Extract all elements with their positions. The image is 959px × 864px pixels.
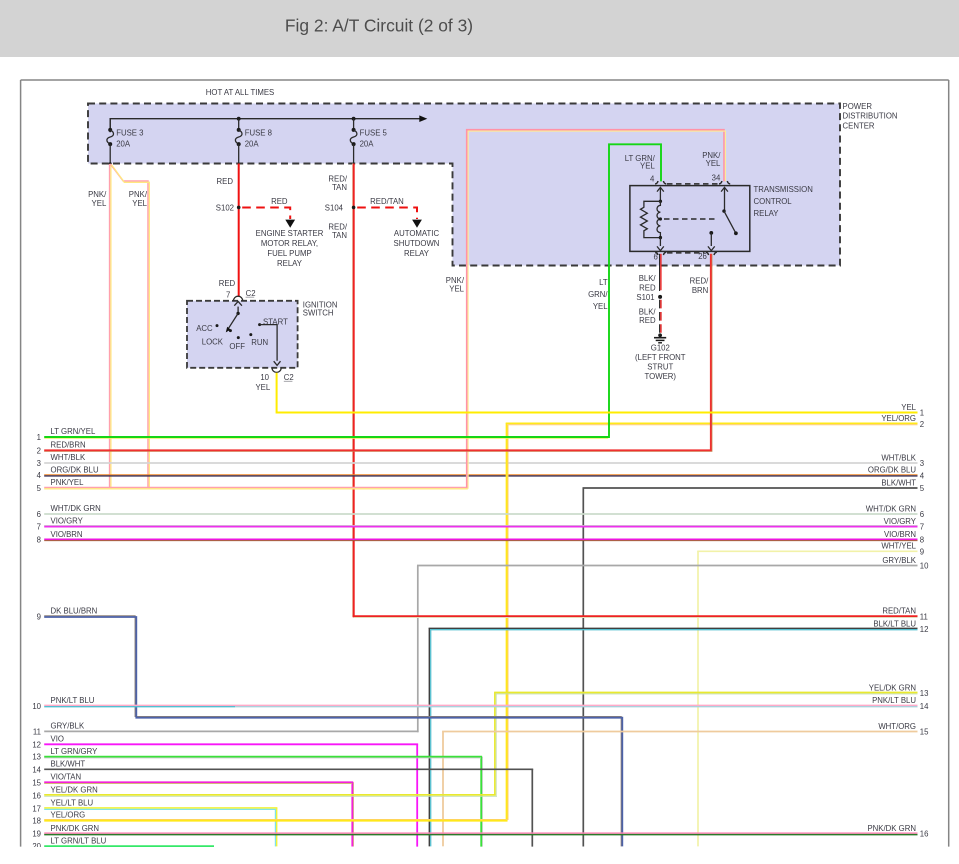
wire LT GRN/YEL row 1 up to relay pin 4 xyxy=(44,437,608,439)
wire VIO row 12 xyxy=(44,743,418,745)
pin 26 connector xyxy=(706,252,717,255)
wire YEL/DK GRN vertical xyxy=(494,693,496,796)
pin 7 connector C2 xyxy=(234,296,243,301)
svg-text:YEL: YEL xyxy=(640,162,655,171)
svg-text:16: 16 xyxy=(920,830,929,839)
relay top connector dashes xyxy=(667,183,719,185)
svg-text:6: 6 xyxy=(920,510,924,519)
wire WHT/ORG right row 15 xyxy=(442,731,917,733)
svg-text:YEL: YEL xyxy=(92,199,107,208)
svg-text:YEL: YEL xyxy=(593,302,608,311)
pin 10 connector C2 xyxy=(272,368,281,373)
svg-text:G102: G102 xyxy=(651,343,670,352)
svg-text:5: 5 xyxy=(920,484,925,493)
wire RED/TAN right row 11 xyxy=(353,615,918,617)
junction dot at fuse 5 tap xyxy=(352,117,356,121)
svg-text:ACC: ACC xyxy=(196,324,213,333)
svg-text:34: 34 xyxy=(712,174,721,183)
svg-text:SHUTDOWN: SHUTDOWN xyxy=(394,239,440,248)
svg-text:RED/TAN: RED/TAN xyxy=(370,197,404,206)
wire ORG/DK BLU row 4 xyxy=(44,474,917,476)
svg-text:VIO/TAN: VIO/TAN xyxy=(51,773,82,782)
svg-text:LT: LT xyxy=(599,278,608,287)
svg-text:20A: 20A xyxy=(245,139,260,148)
svg-text:RED/TAN: RED/TAN xyxy=(882,607,916,616)
wire RED/BRN pin 26 to left row 2 xyxy=(44,254,712,451)
svg-text:PNK/YEL: PNK/YEL xyxy=(51,478,85,487)
svg-text:YEL: YEL xyxy=(706,159,721,168)
svg-text:10: 10 xyxy=(260,373,269,382)
svg-text:5: 5 xyxy=(37,484,42,493)
splice S104 xyxy=(352,206,356,210)
svg-text:PNK/LT BLU: PNK/LT BLU xyxy=(51,696,95,705)
wire WHT/YEL right row 9 xyxy=(697,550,917,552)
svg-text:8: 8 xyxy=(920,536,924,545)
node OFF xyxy=(237,336,240,339)
svg-text:S102: S102 xyxy=(216,204,234,213)
svg-text:ENGINE STARTER: ENGINE STARTER xyxy=(256,229,324,238)
wire BLK/RED from pin 6 to S101 xyxy=(659,254,661,291)
svg-text:BLK/WHT: BLK/WHT xyxy=(881,478,916,487)
svg-text:TAN: TAN xyxy=(332,231,347,240)
wire VIO vertical xyxy=(416,744,418,846)
wire VIO/GRY row 7 xyxy=(44,524,917,526)
svg-text:ORG/DK BLU: ORG/DK BLU xyxy=(868,466,916,475)
svg-text:20A: 20A xyxy=(360,139,375,148)
svg-text:MOTOR RELAY,: MOTOR RELAY, xyxy=(261,239,318,248)
svg-text:LT GRN/LT BLU: LT GRN/LT BLU xyxy=(51,836,107,845)
svg-text:4: 4 xyxy=(650,175,655,184)
resistor (relay) xyxy=(641,201,661,237)
wire VIO/TAN row 15 xyxy=(44,781,353,783)
svg-text:C2: C2 xyxy=(284,373,294,382)
svg-text:7: 7 xyxy=(226,290,230,299)
wire WHT/BLK row 3 xyxy=(44,462,917,464)
svg-text:BRN: BRN xyxy=(692,286,708,295)
svg-text:(LEFT FRONT: (LEFT FRONT xyxy=(635,353,686,362)
wire BLK/WHT right row 5 xyxy=(583,487,918,489)
bus wire (battery feed) xyxy=(110,119,420,133)
wire DK BLU/BRN row 9 routing xyxy=(44,616,621,847)
svg-text:LOCK: LOCK xyxy=(202,337,224,346)
splice S101 xyxy=(658,295,662,299)
pin 34 connector xyxy=(719,181,730,184)
svg-text:YEL/LT BLU: YEL/LT BLU xyxy=(51,799,94,808)
wire BLK/LT BLU vertical xyxy=(428,628,430,846)
svg-text:7: 7 xyxy=(37,523,41,532)
svg-text:TRANSMISSION: TRANSMISSION xyxy=(754,185,813,194)
wire YEL from ignition pin 10 to right row 1 xyxy=(277,373,918,413)
svg-text:RED/BRN: RED/BRN xyxy=(51,441,86,450)
svg-text:YEL: YEL xyxy=(132,199,147,208)
svg-text:YEL/ORG: YEL/ORG xyxy=(51,811,86,820)
fuse FUSE 5 20A xyxy=(353,119,355,130)
svg-text:AUTOMATIC: AUTOMATIC xyxy=(394,229,440,238)
svg-text:SWITCH: SWITCH xyxy=(303,309,334,318)
svg-text:BLK/LT BLU: BLK/LT BLU xyxy=(873,619,916,628)
svg-text:VIO/BRN: VIO/BRN xyxy=(884,530,916,539)
svg-text:OFF: OFF xyxy=(229,342,245,351)
svg-text:WHT/DK GRN: WHT/DK GRN xyxy=(866,504,916,513)
svg-text:S104: S104 xyxy=(325,204,344,213)
svg-text:19: 19 xyxy=(32,830,41,839)
svg-text:CONTROL: CONTROL xyxy=(754,197,793,206)
svg-text:PNK/LT BLU: PNK/LT BLU xyxy=(872,696,916,705)
svg-text:9: 9 xyxy=(920,547,924,556)
svg-text:2: 2 xyxy=(920,420,924,429)
svg-text:10: 10 xyxy=(920,562,929,571)
title bar xyxy=(0,0,959,57)
svg-text:WHT/BLK: WHT/BLK xyxy=(51,453,86,462)
svg-text:12: 12 xyxy=(920,625,929,634)
svg-text:1: 1 xyxy=(920,409,924,418)
svg-text:17: 17 xyxy=(32,804,41,813)
svg-text:4: 4 xyxy=(920,471,925,480)
power distribution center box xyxy=(88,104,840,266)
svg-text:WHT/YEL: WHT/YEL xyxy=(881,542,916,551)
relay switch contact from pin 34 xyxy=(721,187,728,191)
svg-text:RED: RED xyxy=(639,316,656,325)
svg-text:PNK/DK GRN: PNK/DK GRN xyxy=(51,824,100,833)
svg-text:S101: S101 xyxy=(636,293,654,302)
wire PNK/LT BLU row 10/14 xyxy=(44,704,917,706)
wire LT GRN/LT BLU row 20 xyxy=(44,845,214,847)
relay coil xyxy=(657,201,660,237)
svg-text:BLK/: BLK/ xyxy=(639,274,657,283)
svg-text:RELAY: RELAY xyxy=(404,249,430,258)
wire PNK/YEL row 5 xyxy=(44,487,466,489)
svg-text:BLK/: BLK/ xyxy=(639,307,657,316)
svg-text:RED: RED xyxy=(271,197,288,206)
svg-text:4: 4 xyxy=(37,471,42,480)
ignition switch box xyxy=(187,301,298,368)
splice S102 xyxy=(237,206,241,210)
node LOCK xyxy=(229,329,232,332)
svg-text:RELAY: RELAY xyxy=(277,259,303,268)
relay bottom connector dashes xyxy=(667,252,705,254)
svg-text:1: 1 xyxy=(37,433,41,442)
svg-text:GRY/BLK: GRY/BLK xyxy=(51,722,85,731)
svg-text:6: 6 xyxy=(653,253,657,262)
wire YEL/LT BLU vertical xyxy=(276,808,278,847)
svg-text:RUN: RUN xyxy=(251,338,268,347)
svg-text:DISTRIBUTION: DISTRIBUTION xyxy=(843,112,898,121)
svg-text:STRUT: STRUT xyxy=(647,363,673,372)
wire RED/TAN vertical from fuse 5 xyxy=(352,164,354,617)
ground G102 xyxy=(658,333,662,337)
svg-text:YEL: YEL xyxy=(255,383,270,392)
svg-text:POWER: POWER xyxy=(843,102,873,111)
svg-text:11: 11 xyxy=(920,612,928,621)
wire GRY/BLK right row 10 to left row 11 xyxy=(417,565,918,567)
fuse FUSE 8 20A xyxy=(238,119,240,130)
svg-text:15: 15 xyxy=(32,778,41,787)
node START xyxy=(258,323,261,326)
wire YEL/DK GRN left row 16 xyxy=(44,794,496,796)
wire BLK/WHT row 14 xyxy=(44,768,533,770)
wire BLK/WHT right row 5 vertical xyxy=(582,488,584,847)
wire YEL/DK GRN right row 13 xyxy=(494,692,917,694)
junction dot at fuse 3 output split xyxy=(109,162,112,165)
svg-text:10: 10 xyxy=(32,702,41,711)
dashed splice wire RED/TAN to ASD relay xyxy=(357,208,417,220)
svg-text:FUEL PUMP: FUEL PUMP xyxy=(267,249,311,258)
svg-text:11: 11 xyxy=(33,727,41,736)
wire RED from fuse 8 down to ignition switch pin 7 xyxy=(238,164,240,297)
svg-text:WHT/BLK: WHT/BLK xyxy=(881,453,916,462)
svg-text:GRN/: GRN/ xyxy=(588,290,608,299)
svg-text:DK BLU/BRN: DK BLU/BRN xyxy=(51,607,98,616)
pin 4 connector xyxy=(655,181,666,184)
svg-text:WHT/DK GRN: WHT/DK GRN xyxy=(51,504,101,513)
wire PNK/YEL from fuse 3 (right branch) xyxy=(110,164,148,488)
svg-text:9: 9 xyxy=(37,613,41,622)
svg-text:RED/: RED/ xyxy=(690,277,709,286)
wire PNK/YEL from fuse 3 (left branch) xyxy=(109,164,111,488)
wire YEL/ORG left row 18 xyxy=(44,819,508,821)
wire WHT/ORG vertical xyxy=(442,732,444,847)
wire BLK/LT BLU right row 12 xyxy=(429,627,918,629)
wire YEL/ORG right row 2 xyxy=(506,422,918,424)
svg-text:20A: 20A xyxy=(116,139,131,148)
svg-text:PNK/: PNK/ xyxy=(446,276,465,285)
svg-text:BLK/WHT: BLK/WHT xyxy=(51,760,86,769)
svg-text:VIO: VIO xyxy=(51,735,64,744)
svg-text:3: 3 xyxy=(37,459,41,468)
junction dot at fuse 8 tap xyxy=(237,117,241,121)
dashed splice wire RED to other relays xyxy=(242,208,290,220)
wire from START to pin 10 xyxy=(260,325,278,361)
relay internal dashed link xyxy=(664,218,717,220)
svg-text:LT GRN/GRY: LT GRN/GRY xyxy=(51,747,99,756)
svg-text:14: 14 xyxy=(920,702,929,711)
svg-text:VIO/BRN: VIO/BRN xyxy=(51,530,83,539)
svg-text:14: 14 xyxy=(32,765,41,774)
svg-text:FUSE 3: FUSE 3 xyxy=(116,128,143,137)
svg-text:FUSE 8: FUSE 8 xyxy=(245,128,272,137)
svg-text:YEL/DK GRN: YEL/DK GRN xyxy=(51,786,98,795)
wire WHT/DK GRN row 6 xyxy=(44,513,917,515)
svg-text:YEL: YEL xyxy=(901,403,916,412)
svg-text:GRY/BLK: GRY/BLK xyxy=(882,556,916,565)
svg-text:VIO/GRY: VIO/GRY xyxy=(51,517,84,526)
wire WHT/YEL vertical xyxy=(697,551,699,846)
wire BLK/WHT row 14 vertical xyxy=(531,769,533,846)
svg-text:YEL/ORG: YEL/ORG xyxy=(881,414,916,423)
svg-text:Fig 2: A/T Circuit (2 of 3): Fig 2: A/T Circuit (2 of 3) xyxy=(285,16,473,36)
svg-text:YEL: YEL xyxy=(449,285,464,294)
transmission control relay box U1 xyxy=(630,186,750,252)
wire YEL/ORG vertical xyxy=(507,425,509,820)
wire LT GRN/GRY row 13 xyxy=(44,756,482,758)
wire VIO/BRN row 8 xyxy=(44,538,917,540)
wire YEL/LT BLU row 17 xyxy=(44,807,277,809)
svg-text:13: 13 xyxy=(920,689,929,698)
svg-text:16: 16 xyxy=(32,791,41,800)
wire LT GRN/GRY vertical xyxy=(481,757,483,847)
relay coil input from pin 4 xyxy=(657,187,664,191)
pin 6 connector xyxy=(655,252,666,255)
arrow on bus wire xyxy=(419,115,427,122)
svg-text:13: 13 xyxy=(32,753,41,762)
ignition switch movable contact xyxy=(237,307,239,314)
svg-text:FUSE 5: FUSE 5 xyxy=(360,128,388,137)
svg-text:8: 8 xyxy=(37,536,41,545)
svg-text:LT GRN/YEL: LT GRN/YEL xyxy=(51,427,96,436)
svg-text:WHT/ORG: WHT/ORG xyxy=(878,722,916,731)
svg-text:18: 18 xyxy=(32,816,41,825)
svg-text:3: 3 xyxy=(920,459,924,468)
svg-text:YEL/DK GRN: YEL/DK GRN xyxy=(869,683,916,692)
svg-text:CENTER: CENTER xyxy=(843,122,875,131)
svg-text:PNK/DK GRN: PNK/DK GRN xyxy=(867,824,916,833)
svg-text:12: 12 xyxy=(32,740,41,749)
svg-text:TAN: TAN xyxy=(332,183,347,192)
node ACC xyxy=(216,324,219,327)
svg-text:RED: RED xyxy=(217,177,234,186)
svg-text:6: 6 xyxy=(37,510,41,519)
relay output node to pin 26 xyxy=(709,231,713,235)
fuse FUSE 3 20A xyxy=(109,119,111,130)
svg-text:ORG/DK BLU: ORG/DK BLU xyxy=(51,465,99,474)
svg-text:2: 2 xyxy=(37,446,41,455)
svg-text:RED: RED xyxy=(639,284,656,293)
svg-text:VIO/GRY: VIO/GRY xyxy=(884,517,917,526)
svg-text:HOT AT ALL TIMES: HOT AT ALL TIMES xyxy=(206,88,274,97)
dashed wire BLK/RED from S101 to ground xyxy=(659,300,661,333)
wire PNK/DK GRN row 19 xyxy=(44,832,917,834)
svg-text:15: 15 xyxy=(920,728,929,737)
svg-text:RED: RED xyxy=(219,279,236,288)
svg-text:26: 26 xyxy=(698,252,707,261)
wire PNK/YEL row5 up to relay pin 34 xyxy=(467,130,724,489)
wire GRY/BLK vertical xyxy=(417,566,419,733)
svg-text:7: 7 xyxy=(920,523,924,532)
svg-text:RELAY: RELAY xyxy=(754,209,780,218)
wire VIO/TAN vertical xyxy=(353,782,355,846)
node RUN xyxy=(249,333,252,336)
svg-text:TOWER): TOWER) xyxy=(645,372,677,381)
